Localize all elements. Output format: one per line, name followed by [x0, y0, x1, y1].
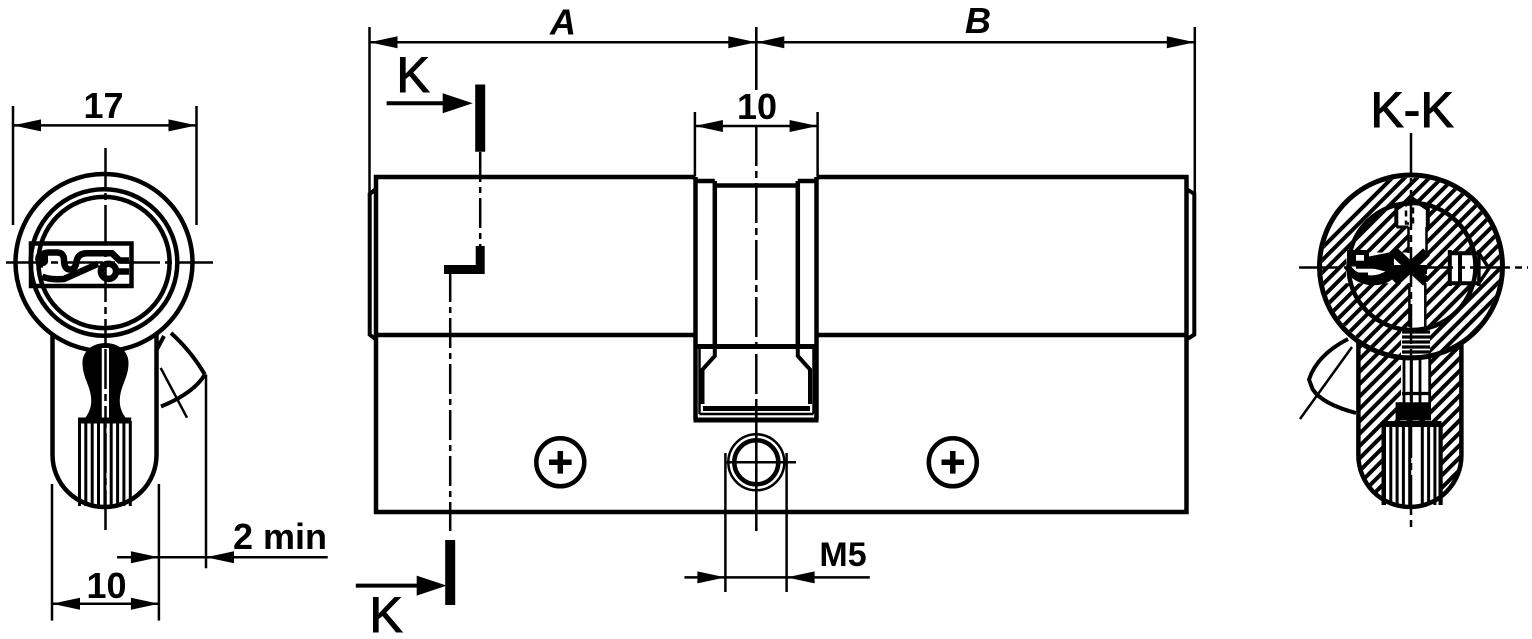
- svg-text:17: 17: [83, 85, 123, 126]
- cam (left view, behind body): [171, 333, 205, 375]
- column edges upper: [1407, 227, 1410, 253]
- cutting plane line with jog: [479, 152, 482, 248]
- hatching: [1050, 120, 1532, 520]
- right face: [1184, 175, 1189, 514]
- plug circle: [38, 197, 169, 328]
- column edges lower: [1408, 283, 1411, 327]
- cam notch inner walls and ledges: [713, 181, 718, 347]
- white channels over hatch: [1396, 199, 1428, 254]
- left face: [374, 175, 379, 514]
- svg-text:2 min: 2 min: [233, 516, 327, 557]
- section mark K bottom: [445, 540, 455, 605]
- cam notch outer walls: [693, 177, 698, 420]
- cam lower profile: [703, 349, 715, 404]
- center line vertical (left view): [104, 148, 107, 533]
- left chamfer cap: [370, 189, 376, 340]
- center lines (K-K): [1299, 266, 1528, 269]
- svg-text:M5: M5: [819, 536, 866, 574]
- center line horizontal (left view): [6, 261, 213, 264]
- dimension 17: [12, 106, 15, 225]
- svg-text:B: B: [965, 0, 991, 41]
- pin chamber below spring: [1403, 357, 1406, 403]
- right chamfer cap: [1187, 189, 1195, 340]
- svg-text:K: K: [396, 47, 429, 103]
- hidden pin dashes in pentagon: [1406, 205, 1413, 224]
- svg-text:K-K: K-K: [1370, 82, 1453, 138]
- A/B divider tick: [755, 27, 758, 90]
- key silhouette (K-K section): [1347, 250, 1369, 267]
- svg-text:10: 10: [737, 86, 777, 127]
- dimension B: [1194, 27, 1197, 193]
- dimension M5: [724, 453, 727, 592]
- svg-text:K: K: [369, 587, 402, 639]
- M5 hole: thread circle and bore: [728, 434, 784, 490]
- screw right: [929, 438, 977, 486]
- pentagon outline: [1396, 199, 1428, 228]
- center line vertical (middle view): [755, 27, 758, 90]
- grip (K-K, striped): [1383, 421, 1440, 427]
- dimension 10 (cam): [694, 112, 697, 176]
- screw left: [536, 438, 584, 486]
- body outline (left view): [53, 334, 157, 508]
- key bow (black silhouette): [83, 343, 129, 418]
- keyway profile wave: [35, 252, 48, 267]
- dimension 10 (left view bottom): [51, 484, 54, 621]
- key grip (striped): [78, 418, 131, 424]
- cam mid bar: [697, 344, 815, 349]
- outer circle: [16, 174, 193, 351]
- svg-text:A: A: [549, 2, 576, 43]
- cam (K-K, lower left): [1309, 339, 1356, 413]
- dimension A: [368, 27, 371, 193]
- body bottom edge: [374, 510, 1189, 515]
- right channel outline: [1450, 250, 1479, 286]
- X arms at center: [1395, 252, 1427, 282]
- middle circle: [31, 189, 178, 336]
- barrel top edge: [374, 175, 696, 180]
- body outline (K-K): [1358, 341, 1461, 507]
- outer circle (K-K): [1320, 175, 1503, 358]
- svg-text:10: 10: [86, 565, 126, 606]
- spring coils: [1402, 330, 1430, 333]
- barrel/body junction line: [376, 333, 694, 338]
- plug circle (K-K): [1349, 203, 1476, 330]
- keyway box: [31, 244, 132, 287]
- dimension 2 min: [205, 375, 208, 569]
- pin tip block: [1396, 402, 1431, 420]
